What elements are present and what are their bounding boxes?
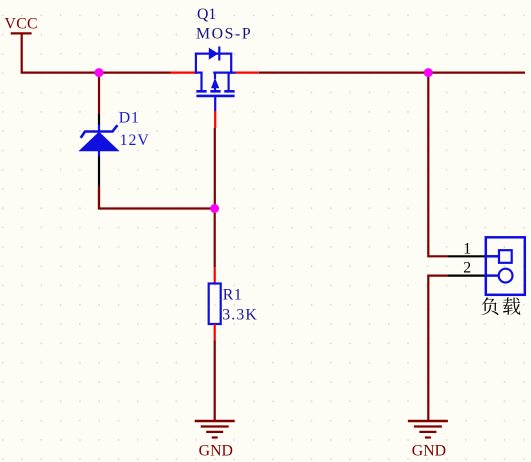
wire VCC junction down to D1 — [98, 73, 100, 114]
pin R1.1 (red) — [214, 267, 216, 283]
svg-text:2: 2 — [463, 259, 471, 276]
body diode cathode bar — [218, 47, 220, 61]
svg-text:12V: 12V — [120, 132, 150, 149]
ground GND (left) — [195, 421, 235, 438]
power symbol VCC — [11, 33, 32, 71]
wire R1 to GND — [214, 340, 216, 420]
pin D1 anode (black) — [98, 157, 100, 188]
pin D1 cathode (black) — [98, 114, 100, 125]
transistor Q1 (MOS-P) — [195, 47, 236, 112]
ground GND (right) — [408, 421, 448, 438]
wire junction to R1 — [214, 209, 216, 268]
pin Q1.D (red pin stub right) — [235, 71, 259, 73]
wire rail right of Q1 — [259, 71, 525, 73]
svg-text:3.3K: 3.3K — [222, 306, 258, 323]
body diode triangle — [209, 48, 219, 60]
pin J1.1 (black) — [448, 255, 486, 257]
pin Q1.S (red pin stub left) — [171, 71, 196, 73]
zener diode D1 — [80, 125, 118, 157]
pin J1.2 (black) — [448, 275, 486, 277]
pin Q1 gate (red) — [214, 111, 216, 128]
substrate arrow — [211, 78, 219, 88]
svg-text:GND: GND — [412, 443, 446, 460]
label 载 (load) — [503, 297, 521, 314]
wire Q1 to junction — [214, 128, 216, 209]
resistor R1 — [209, 284, 221, 325]
svg-text:R1: R1 — [223, 286, 243, 303]
svg-text:Q1: Q1 — [197, 6, 216, 23]
wire-level segment right — [213, 71, 235, 73]
svg-text:GND: GND — [199, 443, 233, 460]
body diode loop — [196, 54, 231, 74]
middle lead — [214, 73, 216, 79]
wire VCC rail (net from VCC to Q1 and load) — [21, 71, 171, 73]
junction node rail/load — [424, 68, 433, 77]
svg-text:1: 1 — [463, 240, 471, 257]
connector J1 body — [486, 237, 525, 294]
gate plate — [196, 95, 234, 98]
junction node D1/Q1 gate/R1 — [210, 204, 219, 213]
label 负 (load) — [481, 297, 498, 315]
pin R1.2 (red) — [214, 324, 216, 340]
left channel lead — [200, 73, 202, 91]
svg-text:MOS-P: MOS-P — [196, 26, 252, 43]
channel plates — [196, 90, 234, 93]
svg-text:D1: D1 — [119, 110, 140, 127]
wire D1 to gate node — [98, 187, 215, 209]
svg-text:VCC: VCC — [5, 16, 38, 33]
junction node VCC/D1 — [95, 68, 104, 77]
bottom lead stub — [214, 97, 216, 111]
wire load pin2 to GND — [428, 276, 448, 420]
wire load branch down — [428, 73, 448, 257]
right channel lead — [228, 73, 230, 91]
wire-level segment left — [195, 71, 203, 73]
